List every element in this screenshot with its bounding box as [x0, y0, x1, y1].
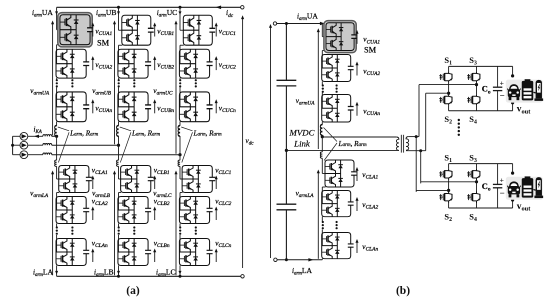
svg-text:MVDC: MVDC — [289, 128, 315, 138]
svg-text:+: + — [500, 176, 504, 185]
svg-text:−: − — [500, 91, 505, 101]
svg-text:+: + — [500, 78, 504, 87]
svg-text:(b): (b) — [396, 285, 410, 297]
svg-text:SM: SM — [97, 39, 110, 48]
svg-text:(a): (a) — [126, 285, 140, 297]
svg-text:SM: SM — [364, 46, 377, 55]
svg-text:−: − — [500, 188, 505, 198]
svg-text:Link: Link — [293, 139, 311, 149]
